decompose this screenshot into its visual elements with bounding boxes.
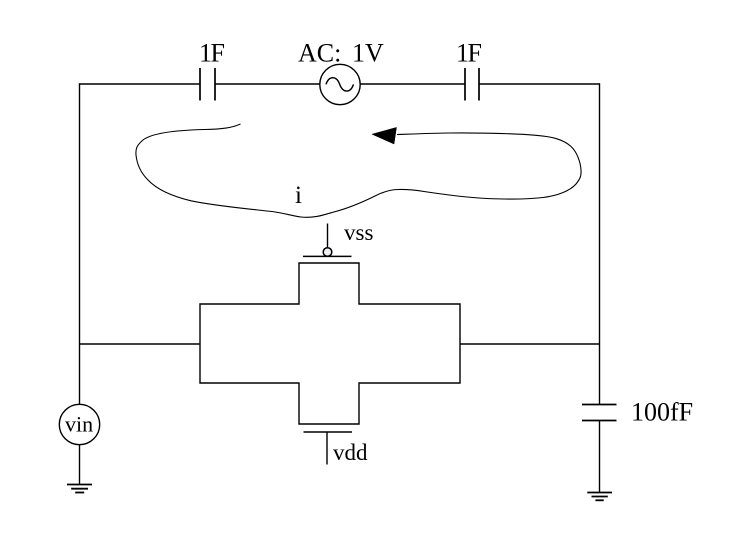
svg-text:i: i bbox=[295, 182, 302, 209]
svg-text:AC:: AC: bbox=[298, 39, 341, 68]
svg-text:1F: 1F bbox=[456, 39, 482, 68]
transistor M1 body (cross shape) bbox=[200, 263, 460, 424]
wire C3 to ground bbox=[599, 421, 601, 493]
svg-text:1V: 1V bbox=[352, 39, 384, 68]
wire C2 to top-right corner bbox=[479, 83, 600, 85]
wire top-left horizontal bbox=[80, 83, 201, 85]
wire left branch to transistor bbox=[80, 343, 201, 345]
current arrowhead bbox=[372, 127, 397, 144]
gate bubble (PMOS) bbox=[323, 248, 332, 257]
wire right rail bbox=[599, 83, 601, 404]
ground (right) bbox=[587, 493, 612, 501]
transistor bottom gate line bbox=[304, 431, 353, 433]
svg-text:vdd: vdd bbox=[333, 440, 368, 465]
wire left rail bbox=[79, 83, 81, 404]
wire C1 to AC source bbox=[215, 83, 320, 85]
wire right branch to transistor bbox=[460, 343, 600, 345]
source vin bbox=[59, 404, 99, 444]
current loop curve bbox=[136, 124, 581, 217]
wire vin to ground bbox=[79, 445, 81, 485]
wire vss lead bbox=[327, 224, 329, 249]
svg-text:vin: vin bbox=[65, 412, 93, 437]
svg-text:vss: vss bbox=[344, 220, 373, 245]
svg-text:1F: 1F bbox=[199, 39, 225, 68]
transistor top gate line bbox=[303, 255, 352, 257]
wire vdd lead bbox=[326, 432, 328, 465]
capacitor C2 1F bbox=[465, 68, 479, 101]
ground (left) bbox=[67, 485, 92, 493]
svg-text:100fF: 100fF bbox=[631, 398, 693, 427]
wire AC source to C2 bbox=[360, 83, 465, 85]
capacitor C3 100fF bbox=[582, 405, 617, 421]
AC source V1 bbox=[320, 64, 360, 104]
capacitor C1 1F bbox=[200, 68, 215, 101]
